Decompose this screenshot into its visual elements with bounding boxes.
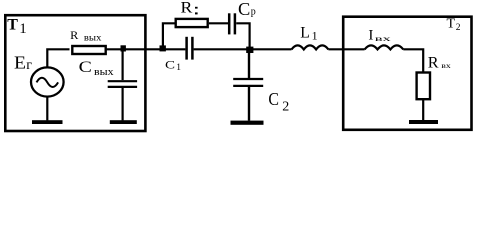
svg-text:T: T bbox=[7, 16, 18, 33]
svg-text:T: T bbox=[447, 17, 456, 32]
svg-text:C: C bbox=[238, 0, 250, 19]
svg-text:C: C bbox=[79, 59, 92, 76]
svg-text:2: 2 bbox=[282, 99, 289, 114]
svg-text:1: 1 bbox=[19, 21, 27, 37]
svg-text:I: I bbox=[368, 28, 373, 44]
svg-text:р: р bbox=[251, 7, 256, 18]
svg-text:вых: вых bbox=[84, 33, 102, 43]
svg-text:2: 2 bbox=[456, 23, 461, 33]
svg-text:1: 1 bbox=[176, 63, 181, 73]
svg-text:R: R bbox=[181, 0, 193, 16]
svg-text:R: R bbox=[70, 28, 78, 42]
svg-text:C: C bbox=[268, 89, 279, 109]
svg-text:вх: вх bbox=[441, 62, 451, 70]
svg-text:1: 1 bbox=[312, 29, 318, 43]
svg-text:L: L bbox=[300, 24, 310, 41]
svg-text:R: R bbox=[428, 54, 439, 71]
svg-text:E: E bbox=[14, 53, 26, 73]
svg-text:вх: вх bbox=[375, 34, 392, 43]
svg-text:г: г bbox=[26, 58, 32, 73]
svg-text:вых: вых bbox=[94, 66, 114, 78]
svg-text:C: C bbox=[165, 58, 175, 72]
